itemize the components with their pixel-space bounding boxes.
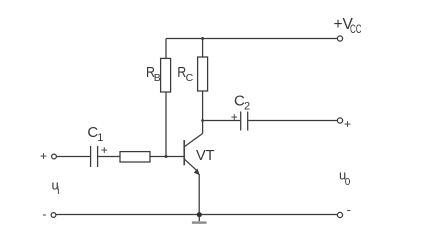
terminal input plus xyxy=(52,154,57,159)
terminal +Vcc xyxy=(337,36,342,41)
wire RB bottom xyxy=(165,92,167,157)
svg-text:0: 0 xyxy=(345,177,351,188)
label RC xyxy=(177,64,193,84)
resistor RC xyxy=(198,57,208,91)
svg-text:VT: VT xyxy=(196,148,215,164)
node collector C2 junction dot xyxy=(201,119,204,122)
wire base xyxy=(150,156,184,158)
label RB xyxy=(146,64,161,84)
svg-text:+: + xyxy=(231,110,238,124)
label C2 xyxy=(234,92,250,112)
terminal output minus xyxy=(337,212,342,217)
terminal output plus xyxy=(337,118,342,123)
capacitor C1 xyxy=(91,146,98,167)
wire emitter down xyxy=(198,174,200,215)
wire RB top xyxy=(165,39,167,59)
junction dot emitter-bottom rail xyxy=(197,212,202,217)
wire input to C1 xyxy=(57,156,91,158)
svg-text:i: i xyxy=(57,186,59,197)
svg-text:+: + xyxy=(40,149,47,163)
label +Vcc xyxy=(334,16,362,36)
label u_i xyxy=(52,178,60,198)
terminal input minus xyxy=(51,213,56,218)
resistor RB xyxy=(161,58,171,92)
capacitor C2 xyxy=(241,112,248,131)
wire C2 left xyxy=(203,120,240,122)
wire RC top xyxy=(202,39,204,58)
svg-text:+: + xyxy=(344,117,351,131)
wire RC bottom to collector xyxy=(202,91,204,134)
transistor VT xyxy=(184,134,202,176)
svg-text:-: - xyxy=(347,203,351,217)
node base junction dot xyxy=(165,155,168,158)
ground xyxy=(192,215,207,223)
label u_o xyxy=(339,168,351,188)
node top rail RC junction dot xyxy=(201,37,204,40)
wire C1 to input resistor xyxy=(98,156,120,158)
label C1 xyxy=(87,124,103,144)
svg-text:2: 2 xyxy=(244,101,250,113)
svg-text:C: C xyxy=(186,72,194,84)
svg-text:-: - xyxy=(43,207,47,221)
svg-text:B: B xyxy=(154,72,161,84)
svg-text:+: + xyxy=(101,143,108,157)
wire top rail xyxy=(166,38,337,40)
wire C2 right xyxy=(248,120,337,122)
wire bottom rail xyxy=(56,214,337,216)
svg-text:CC: CC xyxy=(350,22,362,36)
resistor input series (unlabeled) xyxy=(120,152,150,162)
